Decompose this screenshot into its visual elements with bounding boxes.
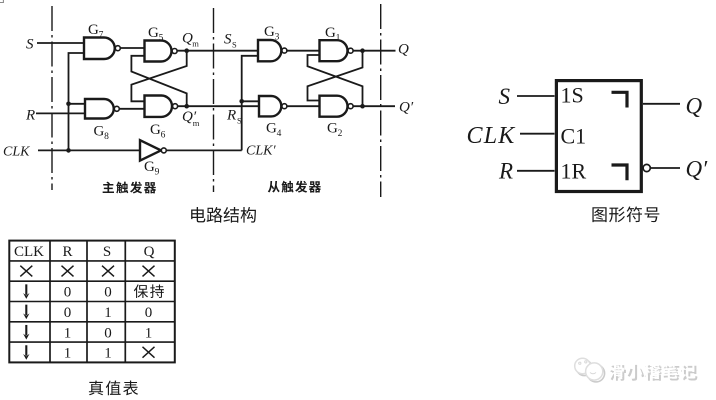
svg-text:9: 9 bbox=[155, 167, 160, 177]
caption graphic symbol 图形符号 bbox=[592, 206, 659, 222]
label Q output bbox=[398, 42, 409, 58]
wire S to symbol bbox=[517, 95, 555, 97]
NAND gate G4 bbox=[259, 96, 287, 116]
label R bbox=[25, 108, 35, 124]
svg-text:G: G bbox=[266, 121, 277, 137]
boundary dash-dot line left bbox=[51, 6, 53, 190]
watermark logo and text 滑小稽笔记 bbox=[575, 358, 698, 382]
svg-text:1: 1 bbox=[64, 325, 72, 341]
NAND gate G1 bbox=[320, 40, 354, 61]
boundary dash-dot line middle bbox=[213, 8, 215, 192]
wire S input to G7 bbox=[37, 42, 84, 44]
wire symbol to Q' bbox=[650, 167, 680, 169]
pin label 1R bbox=[561, 159, 587, 184]
truth table row 4 bbox=[23, 325, 152, 341]
wire CLK branch up to G7 lower input bbox=[69, 53, 85, 150]
junction CLK vertical bbox=[66, 148, 71, 153]
label CLK symbol bbox=[467, 123, 517, 149]
wire R to symbol bbox=[517, 170, 555, 172]
svg-text:S: S bbox=[103, 244, 111, 260]
svg-text:R: R bbox=[226, 108, 236, 124]
node Q' junction bbox=[360, 104, 365, 109]
label R symbol bbox=[498, 159, 513, 184]
svg-text:Q: Q bbox=[686, 94, 703, 119]
junction CLK to G8 bbox=[66, 102, 71, 107]
label Rs bbox=[226, 108, 242, 126]
svg-text:S: S bbox=[26, 37, 34, 53]
label G8 bbox=[94, 124, 110, 142]
node Qm junction bbox=[184, 48, 189, 53]
svg-text:m: m bbox=[192, 39, 199, 49]
svg-text:0: 0 bbox=[145, 305, 153, 321]
wire G4 output to G2 bbox=[287, 105, 320, 107]
svg-text:3: 3 bbox=[275, 32, 280, 42]
label Q'm bbox=[182, 109, 200, 128]
svg-text:5: 5 bbox=[159, 33, 164, 43]
pin label 1S bbox=[561, 83, 584, 108]
wire CLK to symbol bbox=[520, 133, 555, 135]
label CLK bbox=[3, 145, 30, 160]
svg-text:CLK: CLK bbox=[14, 244, 44, 260]
NAND gate G7 bbox=[84, 38, 120, 60]
label Q' output bbox=[399, 100, 414, 116]
node Q junction bbox=[360, 48, 365, 53]
wire CLK branch to G8 upper input bbox=[69, 103, 86, 105]
caption circuit structure 电路结构 bbox=[191, 207, 256, 223]
label Ss bbox=[224, 32, 237, 50]
svg-text:G: G bbox=[325, 25, 336, 41]
truth table grid bbox=[9, 241, 175, 363]
figure crop mark top-left corner bbox=[0, 0, 4, 3]
svg-text:1S: 1S bbox=[561, 83, 584, 108]
caption truth table 真值表 bbox=[89, 381, 138, 396]
wire symbol to Q bbox=[643, 103, 680, 105]
NAND gate G2 bbox=[320, 96, 354, 117]
svg-text:0: 0 bbox=[104, 325, 112, 341]
wire cross-coupling Q to G2 input bbox=[308, 51, 363, 101]
svg-text:G: G bbox=[88, 22, 99, 38]
wire cross-coupling Q'm to G5 input bbox=[131, 56, 186, 106]
svg-text:G: G bbox=[150, 122, 161, 138]
truth table row 2 bbox=[23, 284, 164, 300]
svg-text:0: 0 bbox=[104, 285, 112, 301]
wire G5 output Qm rail to G3 bbox=[177, 50, 258, 52]
wire G8 output to G6 bbox=[119, 108, 144, 110]
node Q'm junction bbox=[184, 104, 189, 109]
svg-text:S: S bbox=[237, 116, 242, 126]
truth table header row bbox=[14, 244, 155, 260]
svg-text:S: S bbox=[232, 40, 237, 50]
wire CLK input to G9 bbox=[38, 149, 140, 151]
svg-text:2: 2 bbox=[338, 129, 343, 139]
NAND gate G5 bbox=[145, 41, 178, 62]
svg-text:S: S bbox=[224, 32, 232, 48]
svg-text:6: 6 bbox=[161, 130, 166, 140]
label Qm bbox=[182, 31, 199, 49]
caption master latch 主触发器 bbox=[103, 182, 156, 194]
wire G6 output Q'm rail to G4 bbox=[177, 105, 259, 107]
svg-text:R: R bbox=[498, 159, 513, 184]
NAND gate G6 bbox=[145, 96, 178, 117]
pin label C1 bbox=[561, 124, 587, 149]
label G1 bbox=[325, 25, 341, 43]
label G7 bbox=[88, 22, 104, 40]
svg-text:m: m bbox=[193, 118, 200, 128]
label Q' symbol bbox=[686, 157, 709, 182]
svg-text:1: 1 bbox=[145, 325, 153, 341]
label Q symbol bbox=[686, 94, 703, 119]
label CLK' bbox=[246, 144, 276, 159]
wire R input to G8 bbox=[36, 112, 85, 114]
postponed output symbol top bbox=[612, 92, 628, 107]
svg-text:4: 4 bbox=[277, 129, 282, 139]
svg-text:CLK: CLK bbox=[3, 145, 30, 160]
boundary dash-dot line right bbox=[380, 4, 382, 197]
NAND gate G8 bbox=[85, 99, 119, 119]
wire cross-coupling Qm to G6 input bbox=[131, 51, 186, 102]
svg-text:1: 1 bbox=[336, 33, 341, 43]
svg-text:R: R bbox=[25, 108, 35, 124]
wire G2 output to Q' bbox=[353, 105, 395, 107]
wire G1 output to Q bbox=[353, 50, 396, 52]
label G9 bbox=[144, 159, 160, 177]
svg-text:Q′: Q′ bbox=[686, 157, 709, 182]
svg-text:G: G bbox=[94, 124, 105, 140]
svg-text:G: G bbox=[148, 25, 159, 41]
svg-text:G: G bbox=[327, 121, 338, 137]
svg-text:1R: 1R bbox=[561, 159, 587, 184]
postponed output symbol bottom bbox=[612, 165, 628, 180]
flip-flop symbol box U1 bbox=[556, 81, 641, 192]
svg-text:C1: C1 bbox=[561, 124, 587, 149]
wire G7 output to G5 bbox=[120, 47, 145, 49]
bubble Q' complement bbox=[643, 164, 650, 171]
svg-text:CLK′: CLK′ bbox=[246, 144, 276, 159]
svg-text:0: 0 bbox=[64, 285, 72, 301]
label G2 bbox=[327, 121, 343, 139]
wire CLK' up to G3 lower input bbox=[242, 56, 258, 151]
wire CLK' from G9 output bbox=[166, 149, 242, 151]
junction CLK' to G4 bbox=[239, 99, 244, 104]
label G3 bbox=[264, 24, 280, 42]
label G5 bbox=[148, 25, 164, 43]
label G6 bbox=[150, 122, 166, 140]
NAND gate G3 bbox=[258, 40, 287, 61]
wire cross-coupling Q' to G1 input bbox=[308, 55, 363, 106]
svg-text:1: 1 bbox=[104, 305, 112, 321]
label S bbox=[26, 37, 34, 53]
truth table row 1 (x x x x) bbox=[20, 266, 154, 277]
svg-text:G: G bbox=[264, 24, 275, 40]
svg-text:7: 7 bbox=[99, 30, 104, 40]
caption slave latch 从触发器 bbox=[268, 181, 321, 193]
svg-text:Q′: Q′ bbox=[399, 100, 414, 116]
truth table row 3 bbox=[23, 305, 152, 321]
wire G3 output to G1 bbox=[287, 50, 320, 52]
svg-text:R: R bbox=[62, 244, 72, 260]
svg-text:CLK: CLK bbox=[467, 123, 517, 149]
label S symbol bbox=[499, 84, 511, 109]
svg-text:Q: Q bbox=[144, 244, 155, 260]
svg-text:Q: Q bbox=[398, 42, 409, 58]
wire CLK' branch to G4 upper input bbox=[242, 100, 259, 102]
svg-text:1: 1 bbox=[64, 346, 72, 362]
inverter G9 bbox=[140, 140, 166, 160]
svg-text:8: 8 bbox=[104, 132, 109, 142]
svg-text:0: 0 bbox=[64, 305, 72, 321]
label G4 bbox=[266, 121, 282, 139]
svg-text:G: G bbox=[144, 159, 155, 175]
svg-text:1: 1 bbox=[104, 346, 112, 362]
truth table row 5 bbox=[23, 345, 154, 361]
svg-text:S: S bbox=[499, 84, 511, 109]
